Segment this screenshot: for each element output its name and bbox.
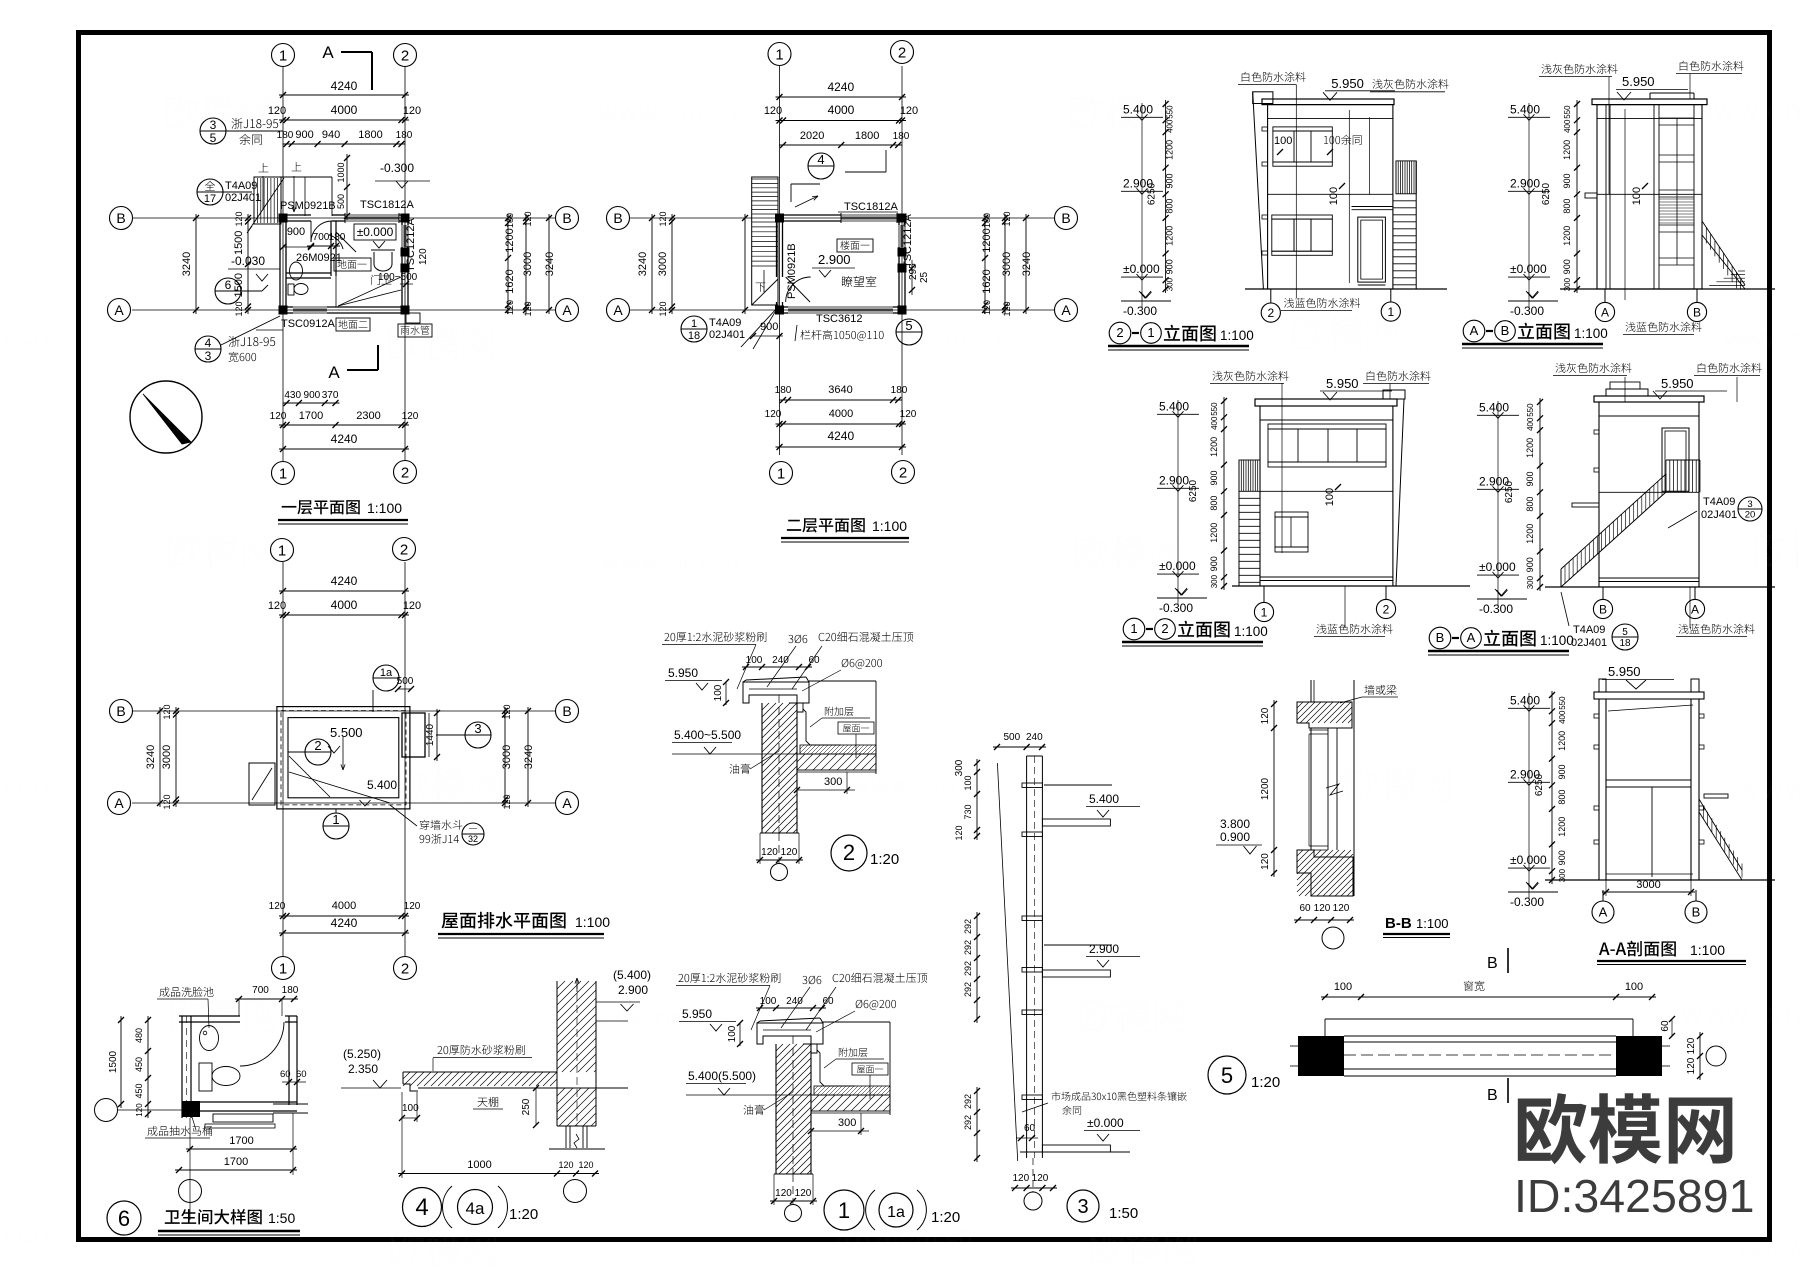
det3 left dims bbox=[976, 759, 978, 840]
plan2 walls bbox=[777, 214, 842, 216]
BB top beam bbox=[1297, 702, 1352, 728]
svg-text:4: 4 bbox=[205, 336, 212, 350]
det3 market label bbox=[1052, 1092, 1187, 1101]
ref bubble 3 roof bbox=[465, 722, 491, 748]
svg-text:60: 60 bbox=[822, 996, 834, 1007]
bottom dims bbox=[186, 1148, 297, 1150]
svg-text:180: 180 bbox=[282, 985, 299, 996]
svg-text:480: 480 bbox=[134, 1028, 144, 1043]
svg-text:100: 100 bbox=[963, 775, 973, 790]
svg-text:60: 60 bbox=[280, 1069, 291, 1080]
svg-text:1: 1 bbox=[279, 465, 287, 482]
AA title bbox=[1599, 941, 1676, 957]
roof left box bbox=[249, 763, 275, 805]
svg-text:B-B: B-B bbox=[1385, 915, 1412, 932]
svg-text:5.950: 5.950 bbox=[1661, 376, 1694, 391]
toilet door arc bbox=[240, 1022, 284, 1066]
elev21 bottom bubbles bbox=[1261, 303, 1280, 322]
svg-text:T4A09: T4A09 bbox=[225, 180, 257, 192]
svg-text:2: 2 bbox=[401, 464, 409, 481]
svg-text:2: 2 bbox=[314, 738, 321, 753]
svg-text:B: B bbox=[613, 210, 622, 226]
svg-text:120: 120 bbox=[1032, 1173, 1049, 1184]
svg-text:T4A09: T4A09 bbox=[709, 317, 741, 329]
svg-text:120: 120 bbox=[234, 211, 244, 226]
label 地面二 bbox=[336, 318, 370, 331]
title 2-1 立面图 bbox=[1109, 322, 1131, 344]
BB left dims bbox=[1273, 700, 1275, 877]
svg-text:1: 1 bbox=[332, 812, 339, 827]
elev12 stair bbox=[1239, 460, 1260, 491]
svg-text:0.900: 0.900 bbox=[1220, 830, 1250, 844]
svg-text:3640: 3640 bbox=[828, 384, 852, 396]
svg-text:3000: 3000 bbox=[1001, 252, 1013, 276]
svg-text:5.400: 5.400 bbox=[1479, 400, 1509, 414]
svg-text:-0.300: -0.300 bbox=[1159, 601, 1193, 615]
svg-text:TSC0912A: TSC0912A bbox=[281, 318, 335, 330]
附加层/屋面一 bbox=[825, 707, 854, 716]
svg-text:292: 292 bbox=[963, 940, 973, 955]
svg-text:B: B bbox=[1487, 955, 1498, 972]
black block bbox=[182, 1101, 200, 1117]
ref bubble 3/5 bbox=[200, 118, 226, 144]
det3 slabs right bbox=[1044, 784, 1112, 786]
svg-text:100: 100 bbox=[713, 684, 724, 701]
window TSC1212 bbox=[401, 225, 403, 247]
svg-text:3000: 3000 bbox=[501, 745, 513, 769]
toilet walls bbox=[181, 1016, 183, 1118]
svg-text:5.400: 5.400 bbox=[1510, 693, 1540, 707]
svg-text:400: 400 bbox=[1563, 119, 1572, 133]
svg-text:4240: 4240 bbox=[331, 79, 358, 93]
plan2 top dims bbox=[776, 96, 907, 98]
svg-text:800: 800 bbox=[1557, 790, 1567, 805]
svg-text:1:100: 1:100 bbox=[575, 914, 610, 930]
ref bubble 17 bbox=[197, 179, 223, 205]
svg-text:±0.000: ±0.000 bbox=[1159, 559, 1196, 573]
svg-text:18: 18 bbox=[1619, 638, 1631, 649]
roof insulation bbox=[800, 745, 876, 754]
svg-text:120: 120 bbox=[658, 301, 668, 316]
svg-text:1:100: 1:100 bbox=[1540, 633, 1574, 648]
svg-text:5: 5 bbox=[210, 131, 217, 145]
svg-text:PSM0921B: PSM0921B bbox=[786, 243, 798, 299]
det3 top dim 500 240 bbox=[993, 746, 1046, 748]
svg-text:TSC1812A: TSC1812A bbox=[360, 199, 414, 211]
svg-text:2.900: 2.900 bbox=[818, 252, 851, 267]
svg-text:900: 900 bbox=[287, 226, 305, 238]
dim 700 180 bbox=[307, 245, 340, 247]
svg-text:32: 32 bbox=[468, 834, 478, 844]
svg-text:1200: 1200 bbox=[1557, 731, 1567, 751]
elev21 stair bbox=[1396, 161, 1416, 194]
labels bbox=[159, 987, 213, 997]
svg-text:±0.000: ±0.000 bbox=[1479, 560, 1516, 574]
svg-text:1: 1 bbox=[691, 318, 697, 330]
elevation A-B 立面图 bbox=[1576, 100, 1578, 293]
svg-text:1200: 1200 bbox=[1557, 817, 1567, 837]
BB bottom dim bbox=[1294, 919, 1354, 921]
label 瞭望室 bbox=[842, 276, 876, 287]
svg-text:120: 120 bbox=[761, 847, 778, 858]
svg-text:A: A bbox=[114, 302, 124, 318]
svg-text:60: 60 bbox=[1024, 1123, 1036, 1134]
left dims bbox=[120, 1016, 122, 1108]
elev21 lower window bbox=[1272, 215, 1333, 219]
svg-text:17: 17 bbox=[204, 193, 216, 205]
toilet bbox=[288, 284, 294, 295]
elev21 ref lines bbox=[1348, 110, 1350, 283]
svg-text:4240: 4240 bbox=[827, 429, 854, 443]
svg-text:900: 900 bbox=[1557, 764, 1567, 779]
svg-text:5.950: 5.950 bbox=[1326, 376, 1359, 391]
svg-text:2: 2 bbox=[401, 960, 409, 977]
svg-text:ID:3425891: ID:3425891 bbox=[1514, 1170, 1754, 1222]
svg-text:180: 180 bbox=[396, 130, 413, 141]
svg-text:B: B bbox=[1061, 210, 1070, 226]
notch & membrane bbox=[803, 1044, 817, 1053]
svg-text:120: 120 bbox=[404, 901, 421, 912]
油膏 bbox=[744, 1105, 765, 1115]
svg-text:T4A09: T4A09 bbox=[1573, 624, 1605, 636]
svg-text:±0.000: ±0.000 bbox=[357, 225, 394, 239]
svg-text:250: 250 bbox=[521, 1098, 532, 1115]
coping bbox=[743, 682, 809, 703]
svg-text:25: 25 bbox=[919, 271, 930, 283]
det4 bottom dims bbox=[398, 1173, 599, 1175]
elevBA top railing bbox=[1665, 460, 1667, 492]
det4 wall legs bbox=[565, 1126, 567, 1148]
svg-text:100: 100 bbox=[1324, 488, 1336, 506]
svg-text:120: 120 bbox=[268, 105, 286, 117]
svg-text:-0.300: -0.300 bbox=[380, 161, 414, 175]
detail 1 bubbles bbox=[824, 1190, 864, 1230]
svg-text:A: A bbox=[562, 795, 572, 811]
svg-text:180: 180 bbox=[277, 130, 294, 141]
title 屋面排水平面图 bbox=[442, 912, 566, 929]
columns bbox=[279, 214, 288, 223]
svg-text:4000: 4000 bbox=[331, 103, 358, 117]
elev12 upper window bbox=[1268, 424, 1386, 429]
det4 bubbles bbox=[403, 1188, 442, 1227]
svg-text:120: 120 bbox=[403, 600, 421, 612]
svg-text:4: 4 bbox=[415, 1194, 428, 1221]
svg-text:2.900: 2.900 bbox=[1159, 473, 1189, 487]
svg-text:B: B bbox=[1436, 630, 1445, 645]
svg-text:120: 120 bbox=[1333, 903, 1350, 914]
svg-text:PSM0921B: PSM0921B bbox=[280, 200, 336, 212]
svg-text:1:100: 1:100 bbox=[872, 518, 907, 534]
svg-text:120: 120 bbox=[505, 300, 515, 315]
elev12 bubbles bbox=[1254, 602, 1273, 621]
svg-text:2: 2 bbox=[899, 464, 907, 481]
svg-text:120: 120 bbox=[523, 301, 533, 316]
svg-text:120: 120 bbox=[900, 409, 917, 420]
svg-text:A: A bbox=[1601, 305, 1609, 319]
elev21 dims chain bbox=[1165, 100, 1167, 293]
svg-text:2: 2 bbox=[843, 840, 855, 865]
label 楼面一 bbox=[837, 239, 873, 252]
svg-text:1800: 1800 bbox=[358, 129, 382, 141]
svg-text:A: A bbox=[328, 363, 340, 382]
elev21 coating labels bbox=[1242, 72, 1306, 82]
AA window marks bbox=[1594, 714, 1599, 718]
bottom dim 120 120 bbox=[760, 832, 799, 834]
svg-text:TSC1812A: TSC1812A bbox=[844, 201, 898, 213]
svg-text:4240: 4240 bbox=[331, 574, 358, 588]
svg-text:3000: 3000 bbox=[522, 252, 534, 276]
svg-text:900: 900 bbox=[1165, 173, 1175, 188]
svg-text:120: 120 bbox=[270, 411, 287, 422]
dim 100 240 60 bbox=[742, 666, 812, 668]
svg-text:1200: 1200 bbox=[1525, 524, 1535, 544]
watermarks bbox=[166, 95, 271, 129]
labels top bbox=[664, 632, 766, 642]
svg-text:6: 6 bbox=[118, 1206, 130, 1231]
elev12 outline bbox=[1255, 399, 1397, 406]
det3 slant line bbox=[997, 763, 1017, 1161]
plan2 left dims bbox=[671, 214, 673, 314]
svg-text:6250: 6250 bbox=[1188, 479, 1199, 502]
svg-text:2: 2 bbox=[1161, 621, 1168, 636]
second floor plan 二层平面图 bbox=[779, 66, 781, 455]
staircase plan bbox=[254, 177, 281, 224]
svg-text:3240: 3240 bbox=[637, 252, 649, 276]
det5 bar bbox=[1325, 1018, 1633, 1020]
svg-text:5.950: 5.950 bbox=[668, 666, 698, 680]
svg-text:60: 60 bbox=[808, 655, 820, 666]
svg-text:120: 120 bbox=[403, 105, 421, 117]
BB label 墙或梁 bbox=[1364, 685, 1396, 695]
wall hatched bbox=[761, 703, 763, 833]
svg-text:550: 550 bbox=[1210, 402, 1219, 416]
interior partitions bbox=[330, 221, 332, 276]
svg-text:800: 800 bbox=[1562, 199, 1572, 214]
svg-text:1:20: 1:20 bbox=[931, 1209, 960, 1226]
elevation B-A 立面图 bbox=[1539, 398, 1541, 591]
det3 ledges bbox=[1022, 783, 1042, 788]
svg-text:120: 120 bbox=[1012, 1173, 1029, 1184]
svg-text:1200: 1200 bbox=[1165, 140, 1175, 160]
svg-text:3: 3 bbox=[205, 349, 212, 363]
svg-text:A: A bbox=[322, 43, 334, 62]
svg-text:A: A bbox=[1470, 323, 1479, 338]
elevAB outline bbox=[1592, 99, 1707, 105]
plan2 staircase bbox=[752, 177, 778, 305]
roof drainage plan 屋面排水平面图 bbox=[282, 562, 284, 956]
svg-text:300: 300 bbox=[1166, 277, 1175, 291]
svg-text:2.900: 2.900 bbox=[1510, 176, 1540, 190]
svg-text:1: 1 bbox=[1261, 605, 1268, 619]
svg-text:120: 120 bbox=[658, 211, 668, 226]
title 1-2 立面图 bbox=[1123, 618, 1145, 640]
svg-text:120: 120 bbox=[162, 794, 172, 809]
svg-text:120: 120 bbox=[775, 1188, 792, 1199]
svg-text:A: A bbox=[1599, 905, 1608, 920]
svg-text:3240: 3240 bbox=[181, 252, 193, 276]
plan1 right dims bbox=[507, 214, 509, 314]
svg-text:5.400~5.500: 5.400~5.500 bbox=[674, 728, 741, 742]
det3 bubble bbox=[1067, 1190, 1099, 1222]
svg-text:4: 4 bbox=[817, 152, 824, 167]
svg-text:1200: 1200 bbox=[1562, 140, 1572, 160]
svg-text:B: B bbox=[1692, 905, 1701, 920]
svg-text:120: 120 bbox=[268, 600, 286, 612]
svg-text:TSC1212A: TSC1212A bbox=[902, 214, 914, 268]
svg-text:100: 100 bbox=[402, 1103, 419, 1114]
det4 slab bbox=[403, 1071, 557, 1073]
svg-text:100: 100 bbox=[1274, 135, 1292, 147]
roof slab bbox=[811, 1095, 890, 1111]
svg-text:1200: 1200 bbox=[1209, 437, 1219, 457]
svg-text:400: 400 bbox=[1526, 417, 1535, 431]
svg-text:B: B bbox=[116, 210, 125, 226]
svg-text:1:100: 1:100 bbox=[1690, 942, 1725, 958]
ref bubble 1 roof bbox=[323, 813, 349, 839]
svg-text:02J401: 02J401 bbox=[709, 329, 745, 341]
svg-text:1800: 1800 bbox=[855, 130, 879, 142]
svg-text:1: 1 bbox=[278, 542, 286, 559]
svg-text:3: 3 bbox=[1077, 1196, 1088, 1218]
window TSC1812A plan2 bbox=[841, 214, 897, 216]
svg-text:2: 2 bbox=[898, 44, 906, 61]
title 一层平面图 bbox=[282, 500, 360, 514]
svg-text:1000: 1000 bbox=[467, 1159, 491, 1171]
svg-text:3: 3 bbox=[210, 118, 217, 132]
svg-text:100: 100 bbox=[1328, 187, 1340, 205]
svg-text:100~500: 100~500 bbox=[378, 272, 418, 283]
svg-text:500: 500 bbox=[1003, 732, 1020, 743]
bottom dim 120 120 bbox=[774, 1173, 813, 1175]
svg-text:2.900: 2.900 bbox=[618, 983, 648, 997]
det5 top dim bbox=[1321, 996, 1656, 998]
det3 bottom bbox=[1011, 1187, 1057, 1189]
svg-text:1: 1 bbox=[1130, 621, 1137, 636]
svg-text:120: 120 bbox=[982, 300, 992, 315]
svg-text:4000: 4000 bbox=[331, 598, 358, 612]
svg-text:2.900: 2.900 bbox=[1479, 474, 1509, 488]
svg-text:TSC3612: TSC3612 bbox=[816, 313, 862, 325]
svg-text:900: 900 bbox=[1557, 850, 1567, 865]
svg-text:400: 400 bbox=[1210, 416, 1219, 430]
svg-text:1: 1 bbox=[838, 1198, 850, 1223]
svg-text:5.950: 5.950 bbox=[682, 1007, 712, 1021]
svg-text:3240: 3240 bbox=[145, 745, 157, 769]
plan2 bottom dims bbox=[779, 399, 902, 401]
title B-A 立面图 bbox=[1429, 627, 1451, 649]
svg-text:120: 120 bbox=[1260, 707, 1271, 724]
det4 wall bbox=[556, 981, 558, 1126]
svg-text:1200: 1200 bbox=[504, 228, 516, 252]
svg-text:240: 240 bbox=[786, 996, 803, 1007]
svg-text:4000: 4000 bbox=[829, 408, 853, 420]
svg-text:1: 1 bbox=[279, 960, 287, 977]
svg-text:100: 100 bbox=[727, 1025, 738, 1042]
svg-text:500: 500 bbox=[336, 194, 346, 209]
svg-text:900: 900 bbox=[1209, 556, 1219, 571]
svg-text:120: 120 bbox=[162, 704, 172, 719]
svg-text:1:100: 1:100 bbox=[367, 500, 402, 516]
svg-text:B: B bbox=[1501, 323, 1510, 338]
svg-text:300: 300 bbox=[1526, 575, 1535, 589]
svg-text:120: 120 bbox=[765, 409, 782, 420]
elevation 1-2 立面图 bbox=[1223, 397, 1225, 590]
title A-B 立面图 bbox=[1463, 320, 1485, 342]
svg-text:180: 180 bbox=[982, 213, 992, 228]
svg-text:1200: 1200 bbox=[1165, 226, 1175, 246]
svg-text:120: 120 bbox=[523, 211, 533, 226]
svg-text:450: 450 bbox=[134, 1057, 144, 1072]
svg-text:±0.000: ±0.000 bbox=[1087, 1116, 1124, 1130]
svg-text:5: 5 bbox=[1622, 627, 1628, 638]
svg-text:300: 300 bbox=[838, 1117, 856, 1129]
roof slab bbox=[797, 754, 876, 770]
elevAB stair bbox=[1702, 221, 1745, 285]
svg-text:A: A bbox=[562, 302, 572, 318]
svg-text:-0.300: -0.300 bbox=[1479, 602, 1513, 616]
elevBA bubbles bbox=[1593, 599, 1612, 618]
svg-text:(5.250): (5.250) bbox=[343, 1047, 381, 1061]
svg-text:5.400: 5.400 bbox=[1159, 399, 1189, 413]
svg-text:900: 900 bbox=[1525, 471, 1535, 486]
svg-text:3240: 3240 bbox=[544, 252, 556, 276]
AA bubbles bbox=[1592, 901, 1614, 923]
elevAB bubbles bbox=[1595, 302, 1614, 321]
svg-text:900: 900 bbox=[1562, 259, 1572, 274]
svg-text:120: 120 bbox=[502, 794, 512, 809]
elev12 ref lines bbox=[1281, 383, 1283, 553]
BB window mullion bbox=[1327, 728, 1329, 850]
elev12 labels bbox=[1212, 371, 1288, 381]
ref bubble 5 bbox=[896, 319, 922, 345]
ref bubble 1a roof bbox=[373, 665, 399, 691]
label ±0.000 bbox=[354, 224, 396, 240]
svg-text:1200: 1200 bbox=[1525, 438, 1535, 458]
svg-text:1:20: 1:20 bbox=[870, 851, 899, 868]
elevAB interior verticals bbox=[1605, 105, 1607, 289]
svg-text:1:50: 1:50 bbox=[1109, 1205, 1138, 1222]
plan1 bottom dims bbox=[283, 402, 340, 404]
svg-text:A: A bbox=[1691, 602, 1699, 616]
svg-text:550: 550 bbox=[1526, 403, 1535, 417]
svg-text:2020: 2020 bbox=[800, 130, 824, 142]
svg-text:292: 292 bbox=[963, 919, 973, 934]
det4 label bbox=[437, 1045, 524, 1055]
svg-text:1: 1 bbox=[775, 46, 783, 63]
svg-text:02J401: 02J401 bbox=[1571, 637, 1607, 649]
svg-text:3000: 3000 bbox=[161, 745, 173, 769]
elevBA ledge bbox=[1572, 503, 1599, 507]
svg-text:100: 100 bbox=[1631, 187, 1643, 205]
svg-text:120: 120 bbox=[578, 1160, 593, 1170]
svg-text:240: 240 bbox=[772, 655, 789, 666]
svg-text:2.900: 2.900 bbox=[1123, 176, 1153, 190]
AA walls bbox=[1598, 699, 1600, 880]
labels top bbox=[678, 973, 780, 983]
svg-text:1200: 1200 bbox=[1260, 777, 1271, 800]
svg-text:120: 120 bbox=[1002, 211, 1012, 226]
svg-text:-0.300: -0.300 bbox=[1510, 895, 1544, 909]
svg-text:120: 120 bbox=[1002, 301, 1012, 316]
label 地面一 bbox=[334, 258, 371, 271]
svg-text:100: 100 bbox=[1625, 981, 1643, 993]
svg-text:1:100: 1:100 bbox=[1220, 328, 1254, 343]
svg-text:1500: 1500 bbox=[233, 231, 245, 255]
svg-text:60: 60 bbox=[296, 1069, 307, 1080]
svg-text:A: A bbox=[114, 795, 124, 811]
elevAB labels bbox=[1541, 64, 1617, 74]
door PSM0921B bbox=[310, 221, 312, 242]
